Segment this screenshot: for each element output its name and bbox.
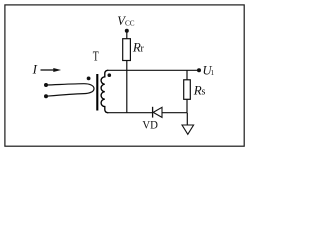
wire: primary single-turn loop through T: [46, 84, 94, 97]
wire: Rr bottom down to bottom net (crossover at node wire, no junction): [126, 61, 128, 113]
resistor Rs: [184, 80, 191, 100]
svg-text:VD: VD: [142, 118, 158, 132]
polarity dot (secondary side): [108, 73, 112, 77]
transformer T core: [96, 74, 98, 111]
Vcc terminal node: [125, 29, 129, 33]
secondary winding of T: [101, 70, 108, 112]
current arrow I: [41, 68, 62, 72]
primary terminal node (bottom): [44, 94, 48, 98]
svg-text:I: I: [32, 62, 38, 77]
svg-text:T: T: [93, 49, 100, 64]
wire: node A to Rs top: [186, 70, 188, 80]
polarity dot (primary side): [87, 77, 91, 81]
resistor Rr: [123, 39, 131, 61]
diode VD: [153, 107, 162, 118]
wire: secondary bottom to diode cathode (junction with Rr branch at x=126.8): [107, 112, 152, 114]
primary terminal node (top): [44, 83, 48, 87]
terminal node U1: [197, 68, 201, 72]
wire: Vcc terminal to Rr: [126, 33, 128, 39]
ground: [182, 113, 194, 135]
wire: diode anode to ground junction: [162, 112, 187, 114]
wire: Rs bottom to ground node: [186, 99, 188, 112]
wire: node A horizontal (secondary top to U1 terminal): [107, 69, 199, 71]
